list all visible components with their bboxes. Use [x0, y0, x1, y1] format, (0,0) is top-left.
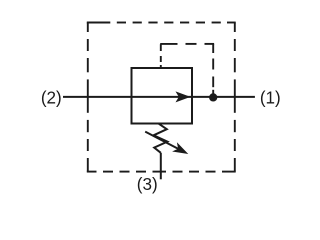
enclosure left edge (dashed) [87, 23, 89, 172]
flow arrowhead [176, 91, 191, 102]
enclosure right edge (dashed) [234, 23, 236, 172]
enclosure top edge (dashed) [87, 22, 236, 24]
junction node dot [209, 93, 217, 101]
svg-text:(2): (2) [41, 87, 62, 108]
pilot line vertical to junction [212, 44, 214, 94]
wire spring to port 3 [160, 153, 162, 180]
valve body U1 [132, 68, 193, 124]
enclosure bottom edge (dashed) [87, 171, 236, 173]
adjustment arrow shaft [145, 132, 178, 149]
pilot line vertical from valve box top [160, 44, 162, 69]
spring [154, 123, 168, 153]
pilot line horizontal run [160, 43, 214, 45]
wire port 2 to port 1 flow line [63, 96, 255, 98]
adjustment arrowhead [172, 142, 188, 154]
svg-text:(3): (3) [137, 174, 158, 195]
svg-text:(1): (1) [260, 87, 281, 108]
